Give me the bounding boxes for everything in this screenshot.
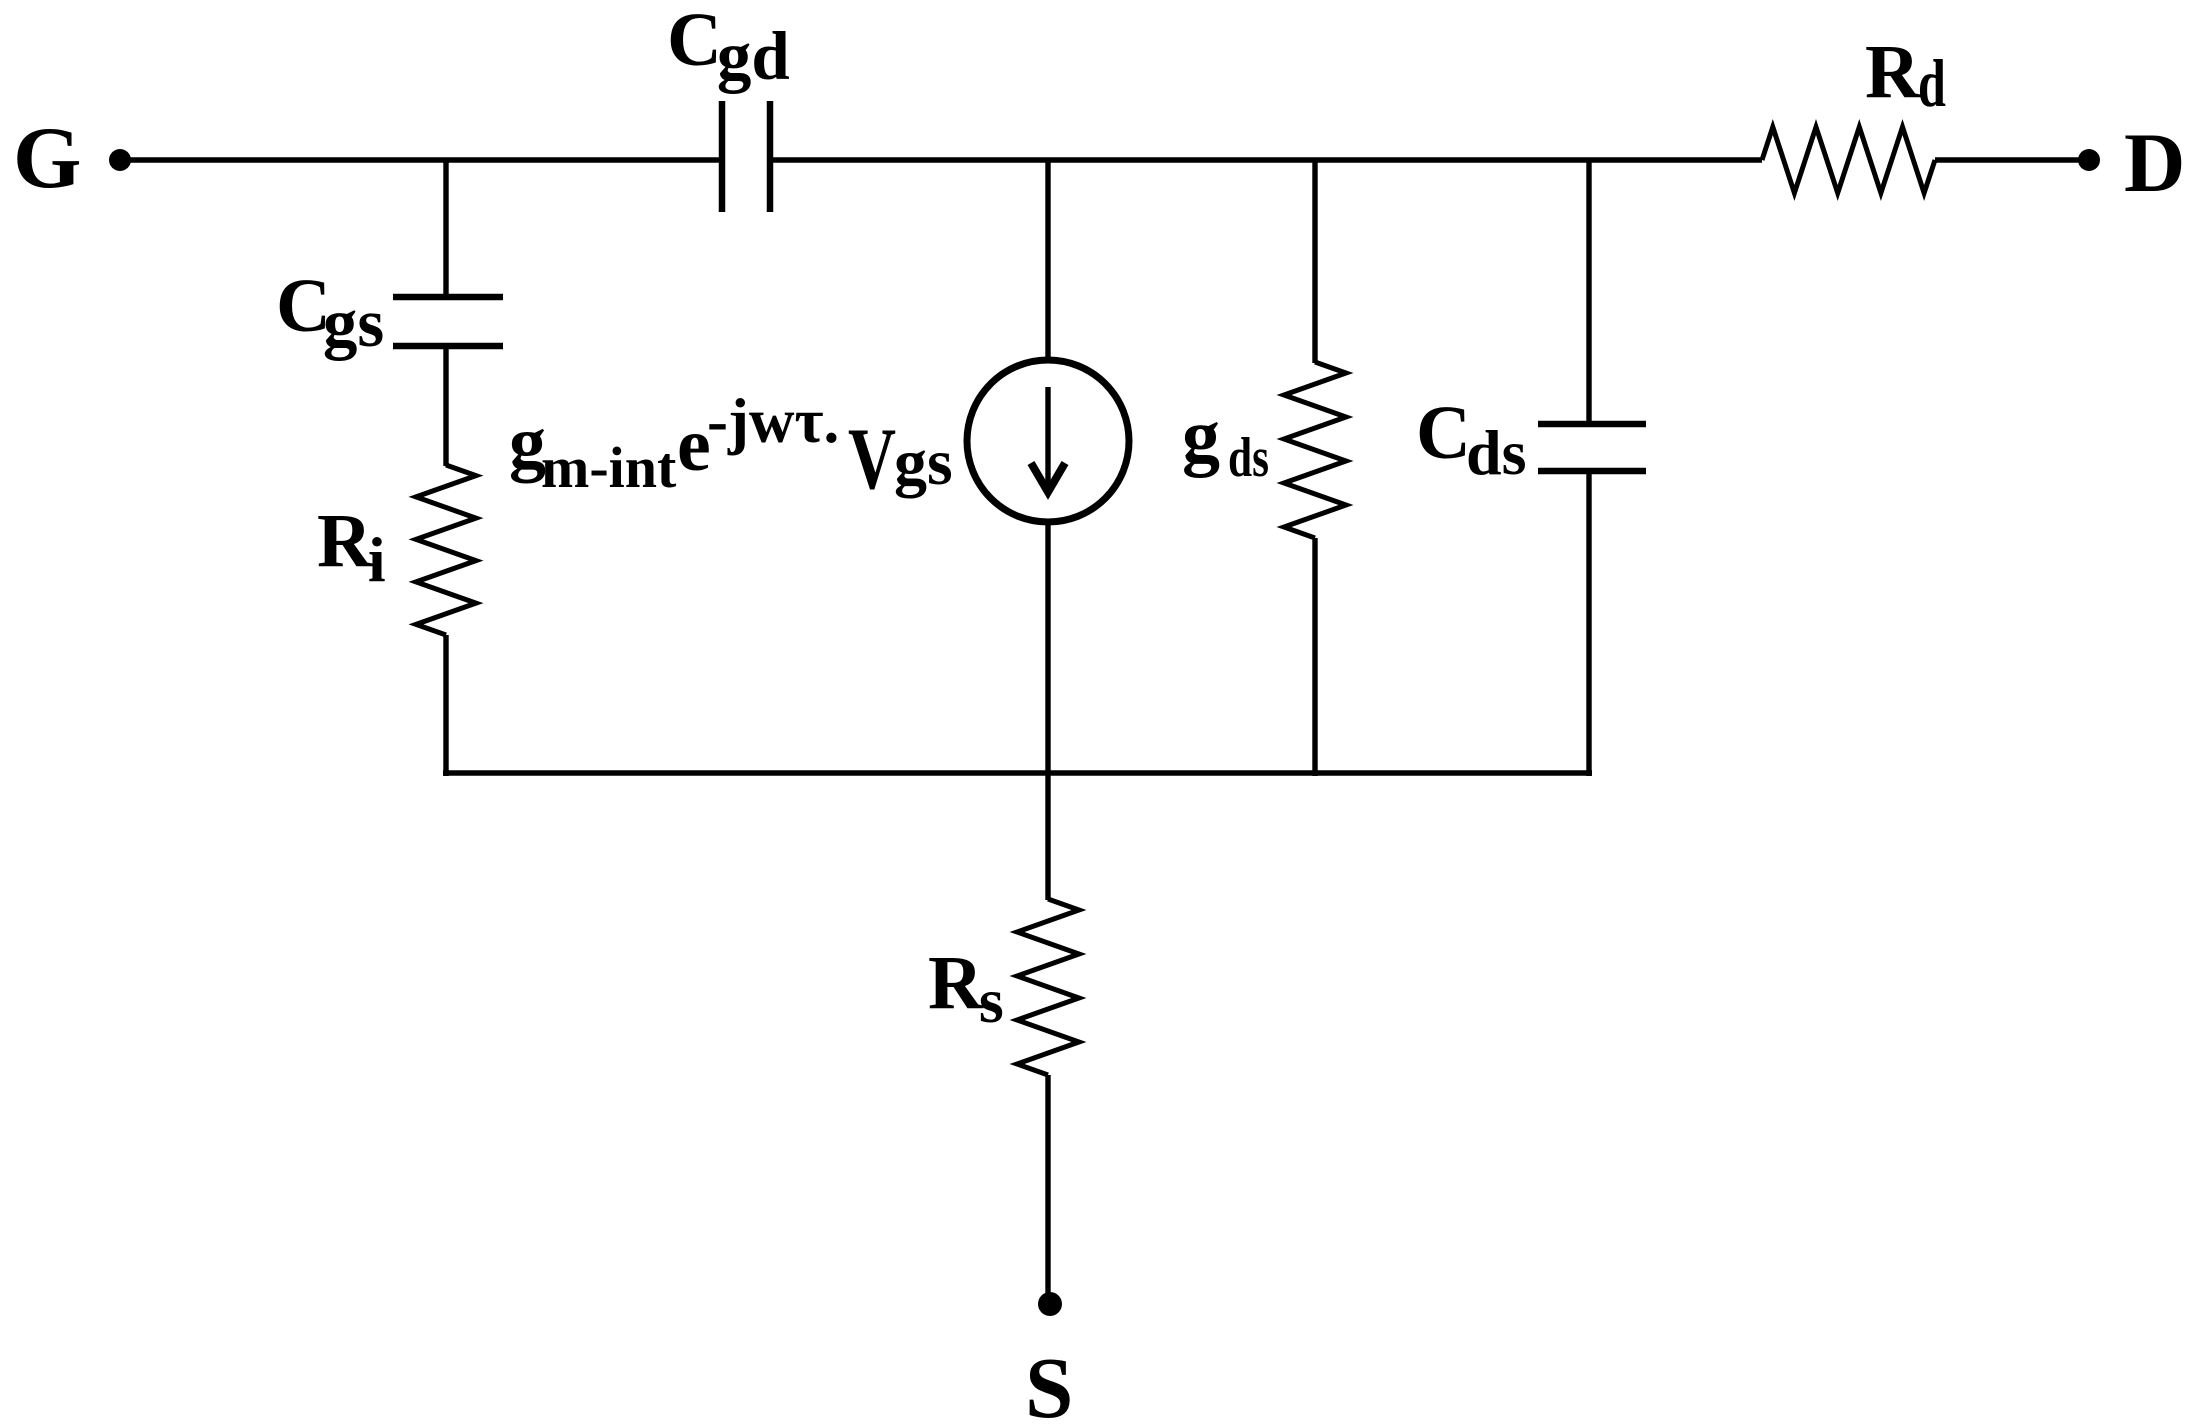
resistor gds [1284,362,1346,538]
wire gds to bottom rail [1312,538,1317,776]
svg-text:D: D [2124,116,2185,210]
node G terminal dot [109,149,131,171]
svg-text:ds: ds [1228,427,1269,489]
wire gds branch from top wire [1312,160,1317,363]
wire Rd to D terminal [1935,157,2089,162]
resistor Rs [1017,899,1079,1075]
svg-text:G: G [13,110,81,207]
current source circle [967,360,1129,522]
node S terminal dot [1038,1292,1062,1316]
wire gate branch down to Cgs [443,160,448,300]
capacitor Cds [1538,424,1646,471]
wire drain node down to current source [1045,160,1050,362]
wire current source to Rs (through bottom rail) [1045,522,1050,900]
svg-text:S: S [1025,1339,1073,1426]
node D terminal dot [2078,149,2100,171]
wire Cds to bottom rail [1586,471,1591,776]
wire Rs to S terminal [1045,1075,1050,1295]
wire G to Cgd left plate [125,157,722,162]
svg-text:e: e [677,403,711,487]
svg-text:C: C [1416,391,1471,475]
wire Cgs to Ri [443,346,448,466]
svg-text:-jwτ.: -jwτ. [707,386,839,456]
resistor Ri [416,465,476,635]
svg-text:g: g [1182,394,1220,478]
current source arrow [1045,387,1050,490]
svg-text:gs: gs [894,426,953,499]
capacitor Cgd [722,101,770,212]
wire Ri to bottom rail [443,635,448,776]
svg-text:m-int: m-int [541,435,677,500]
svg-text:V: V [848,411,896,508]
wire Cds branch from top wire [1586,160,1591,425]
resistor Rd [1762,127,1935,193]
svg-text:ds: ds [1466,417,1527,488]
bottom rail wire [443,770,1592,776]
capacitor Cgs [393,297,503,346]
wire Cgd right plate to Rd [770,157,1762,162]
